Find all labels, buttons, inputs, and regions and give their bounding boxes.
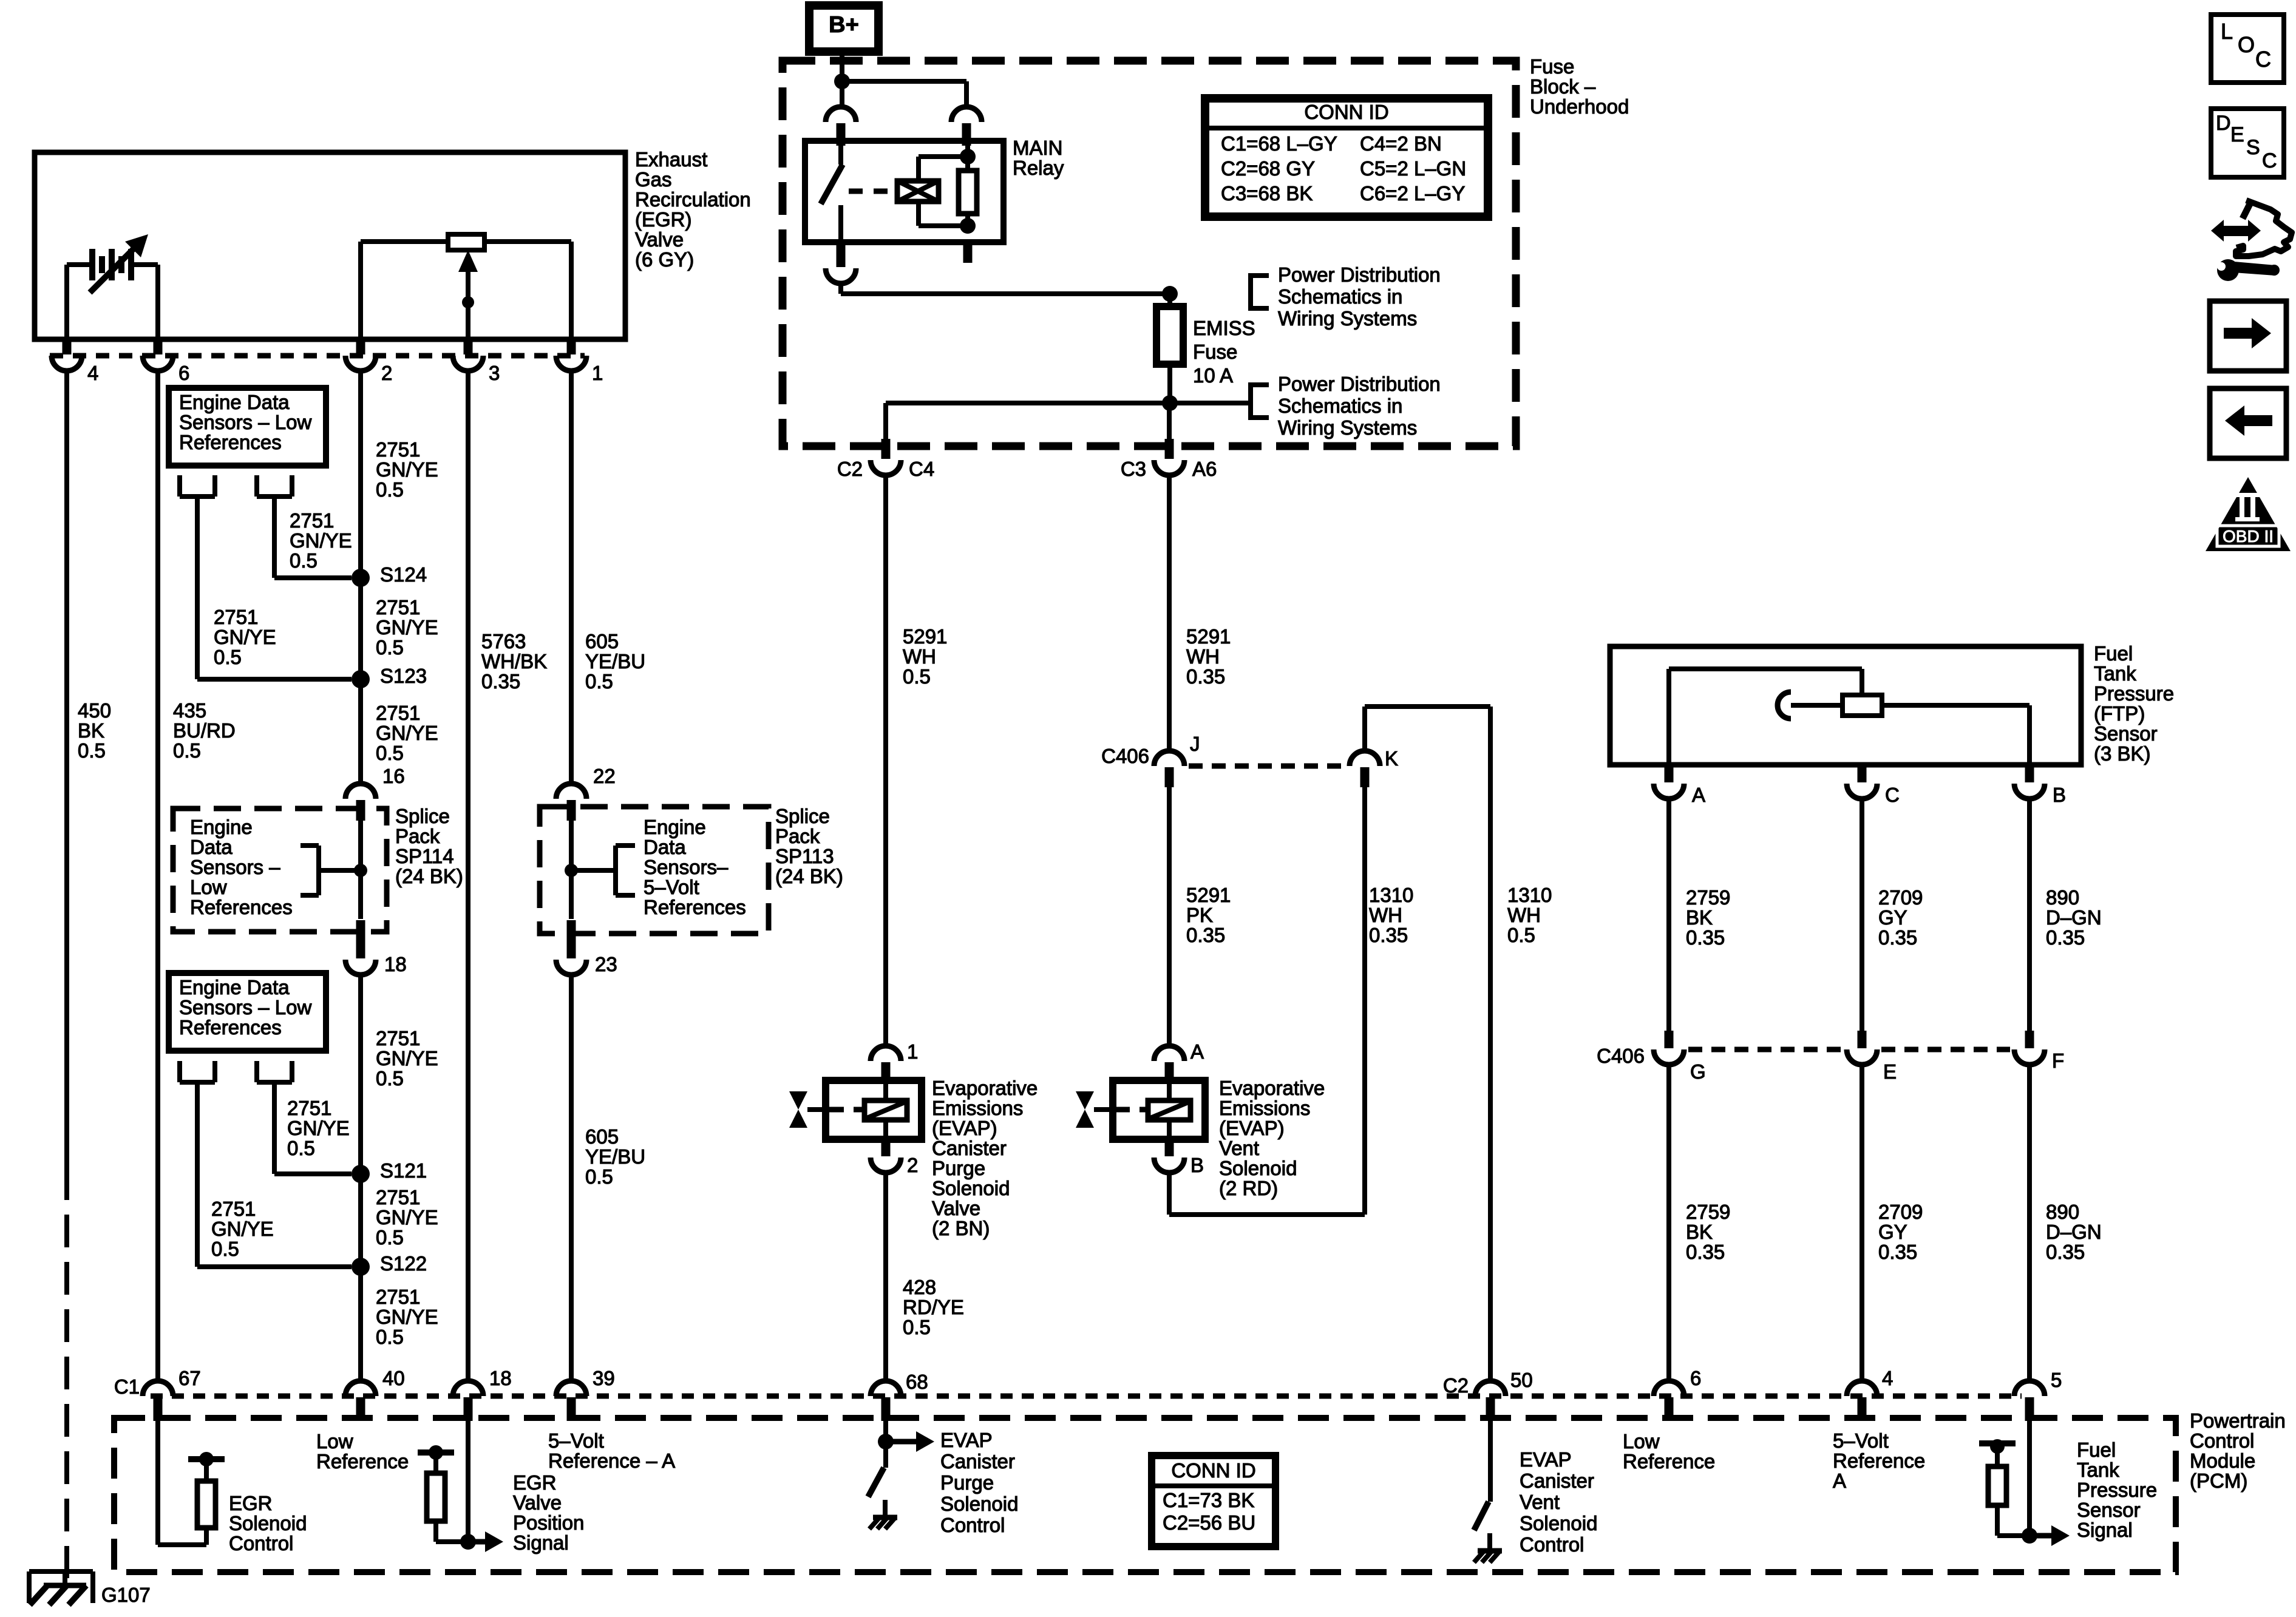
svg-text:(EVAP): (EVAP) — [1219, 1117, 1285, 1139]
MAIN relay label — [1013, 137, 1064, 179]
branch wire from upper box to S124 — [257, 475, 352, 578]
svg-text:0.5: 0.5 — [376, 478, 404, 501]
splice pack SP114 pin 18 — [345, 920, 407, 975]
svg-text:2759: 2759 — [1686, 1201, 1730, 1223]
svg-text:(EGR): (EGR) — [635, 208, 692, 231]
svg-text:Vent: Vent — [1520, 1491, 1560, 1513]
EVAP canister vent solenoid driver (switch to ground) — [1474, 1421, 1502, 1562]
svg-text:5–Volt: 5–Volt — [1833, 1429, 1889, 1452]
svg-text:Sensors –: Sensors – — [190, 856, 280, 878]
svg-text:C1: C1 — [114, 1375, 140, 1398]
svg-text:C406: C406 — [1597, 1045, 1645, 1067]
EGR valve position signal input (resistor and arrow) — [418, 1421, 503, 1552]
svg-text:1310: 1310 — [1369, 884, 1413, 906]
svg-text:Sensors – Low: Sensors – Low — [179, 411, 311, 433]
svg-text:YE/BU: YE/BU — [585, 650, 645, 673]
wire label 428 RD/YE 0.5 — [903, 1276, 964, 1338]
svg-text:YE/BU: YE/BU — [585, 1145, 645, 1168]
svg-text:0.5: 0.5 — [78, 739, 106, 762]
svg-text:Purge: Purge — [932, 1157, 985, 1179]
svg-text:Underhood: Underhood — [1530, 95, 1629, 118]
svg-text:C2: C2 — [837, 458, 863, 480]
svg-text:OBD II: OBD II — [2223, 527, 2274, 546]
adjust/repair hand icon — [2211, 200, 2292, 281]
svg-text:0.35: 0.35 — [1369, 924, 1408, 946]
SP114 splice bracket and node — [301, 846, 367, 895]
svg-text:GN/YE: GN/YE — [376, 1206, 438, 1229]
svg-text:0.5: 0.5 — [290, 549, 318, 572]
PCM pin 67 — [143, 1367, 201, 1421]
svg-text:C5=2 L–GN: C5=2 L–GN — [1360, 157, 1466, 180]
EVAP canister purge solenoid valve — [789, 1080, 922, 1139]
CONN ID table (fuse block) — [1205, 98, 1488, 217]
OBD II icon — [2206, 477, 2291, 551]
svg-text:0.35: 0.35 — [1186, 665, 1225, 688]
C406 connector F — [2014, 1031, 2064, 1072]
svg-text:Sensor: Sensor — [2077, 1499, 2141, 1521]
svg-text:(2 BN): (2 BN) — [932, 1217, 990, 1239]
svg-text:Wiring Systems: Wiring Systems — [1278, 416, 1417, 439]
svg-text:L: L — [2221, 19, 2233, 44]
Fuse Block label — [1530, 55, 1629, 118]
LOC icon — [2211, 15, 2284, 83]
svg-text:Valve: Valve — [932, 1197, 980, 1219]
wire label 2709 GY 0.35 (upper) — [1878, 886, 1923, 949]
EGR valve pin 6 — [143, 338, 189, 384]
svg-text:Power Distribution: Power Distribution — [1278, 263, 1441, 286]
svg-text:References: References — [179, 431, 282, 453]
C406 G-E dashed line — [1688, 1047, 1843, 1053]
splice pack SP113 dashed box — [540, 807, 769, 934]
svg-text:A: A — [1190, 1040, 1204, 1063]
svg-text:Engine: Engine — [644, 816, 706, 838]
wire label 890 D-GN 0.35 (upper) — [2046, 886, 2102, 949]
svg-text:5–Volt: 5–Volt — [548, 1429, 604, 1452]
svg-text:Evaporative: Evaporative — [932, 1077, 1038, 1099]
svg-text:C1=68 L–GY: C1=68 L–GY — [1221, 132, 1337, 155]
svg-text:2751: 2751 — [376, 1027, 420, 1049]
svg-text:D–GN: D–GN — [2046, 1221, 2102, 1243]
svg-text:Schematics in: Schematics in — [1278, 285, 1402, 308]
splice pack SP113 pin 22 — [556, 765, 616, 821]
splice S122 — [352, 1252, 427, 1276]
svg-text:2709: 2709 — [1878, 1201, 1923, 1223]
EGR valve pin 2 — [345, 338, 392, 384]
svg-text:450: 450 — [78, 699, 111, 722]
svg-text:E: E — [1883, 1060, 1897, 1083]
wire label 2759 BK 0.35 (lower) — [1686, 1201, 1730, 1263]
svg-text:0.5: 0.5 — [903, 665, 931, 688]
branch label 2751 GN/YE 0.5 (to S122) — [211, 1198, 274, 1260]
svg-text:WH/BK: WH/BK — [481, 650, 547, 673]
EGR connector row dashed line — [50, 353, 585, 359]
Low Reference label (pin 6) — [1623, 1430, 1715, 1473]
svg-text:Recirculation: Recirculation — [635, 188, 751, 211]
svg-text:0.35: 0.35 — [1878, 1241, 1917, 1263]
svg-text:GN/YE: GN/YE — [376, 1306, 438, 1328]
svg-text:Reference: Reference — [316, 1450, 409, 1473]
svg-text:GN/YE: GN/YE — [214, 626, 276, 648]
C406 E-F dashed line — [1881, 1047, 2010, 1053]
svg-text:5–Volt: 5–Volt — [644, 876, 699, 898]
svg-text:GY: GY — [1878, 1221, 1907, 1243]
svg-text:MAIN: MAIN — [1013, 137, 1063, 159]
PCM pin 5 — [2014, 1369, 2062, 1421]
wire label 605 YE/BU 0.5 (lower) — [585, 1125, 645, 1188]
svg-text:2: 2 — [907, 1154, 918, 1176]
svg-text:Low: Low — [190, 876, 227, 898]
wire label 5763 WH/BK 0.35 — [481, 630, 547, 693]
EGR Solenoid Control label — [229, 1492, 307, 1554]
EGR valve pin 3 — [453, 338, 500, 384]
EVAP Canister Purge Solenoid Control label — [940, 1429, 1018, 1536]
wire label 1310 WH 0.5 — [1507, 884, 1552, 946]
wire label 5291 PK 0.35 — [1186, 884, 1231, 946]
svg-text:0.5: 0.5 — [376, 1326, 404, 1348]
svg-text:Control: Control — [940, 1514, 1005, 1536]
PCM label — [2190, 1409, 2286, 1492]
svg-text:10 A: 10 A — [1193, 364, 1233, 387]
svg-text:Powertrain: Powertrain — [2190, 1409, 2286, 1432]
branch wire from lower box to S122 — [180, 1061, 352, 1267]
EGR Valve Position Signal label — [513, 1471, 584, 1554]
relay output pin (switch side) — [826, 242, 856, 283]
EVAP canister vent solenoid — [1076, 1080, 1205, 1139]
splice S123 — [352, 665, 427, 688]
svg-text:References: References — [644, 896, 746, 918]
svg-text:Gas: Gas — [635, 168, 672, 191]
wire 5291 WH 0.5 to purge solenoid — [883, 475, 888, 1046]
forward arrow icon — [2210, 301, 2286, 371]
C406 label (J-K row) — [1101, 745, 1149, 767]
svg-text:0.5: 0.5 — [214, 646, 242, 668]
wire 890 D-GN C406 F to PCM 5 — [2027, 1064, 2032, 1382]
svg-text:605: 605 — [585, 1125, 619, 1148]
Engine Data Sensors - Low References box (upper) — [169, 388, 326, 466]
svg-text:Purge: Purge — [940, 1471, 994, 1494]
wire label 435 BU/RD 0.5 — [173, 699, 236, 762]
svg-text:References: References — [179, 1016, 282, 1039]
SP114 inner label — [190, 816, 293, 918]
svg-text:0.5: 0.5 — [173, 739, 201, 762]
svg-text:(2 RD): (2 RD) — [1219, 1177, 1278, 1199]
svg-text:GN/YE: GN/YE — [287, 1117, 350, 1139]
back arrow icon — [2210, 388, 2286, 458]
svg-text:C: C — [2255, 47, 2271, 72]
EMISS fuse — [1156, 294, 1183, 402]
wire label 605 YE/BU 0.5 (upper) — [585, 630, 645, 693]
EVAP purge solenoid label — [932, 1077, 1038, 1239]
svg-text:SP113: SP113 — [775, 845, 834, 867]
svg-text:EVAP: EVAP — [940, 1429, 993, 1451]
svg-text:605: 605 — [585, 630, 619, 653]
svg-text:C3=68 BK: C3=68 BK — [1221, 182, 1313, 205]
svg-text:Engine Data: Engine Data — [179, 976, 290, 998]
svg-text:S121: S121 — [380, 1159, 427, 1182]
svg-text:6: 6 — [1690, 1367, 1701, 1389]
EGR valve pin 1 — [556, 338, 603, 384]
svg-text:GN/YE: GN/YE — [376, 1047, 438, 1070]
svg-text:(EVAP): (EVAP) — [932, 1117, 997, 1139]
FTP sensor pin A — [1654, 765, 1705, 806]
svg-text:Pressure: Pressure — [2094, 682, 2174, 705]
svg-text:A: A — [1692, 784, 1705, 806]
EVAP purge solenoid pin 2 — [871, 1139, 918, 1176]
FTP sensor pin B — [2014, 765, 2066, 806]
relay pin connector (right) — [951, 107, 982, 146]
svg-text:G: G — [1690, 1060, 1706, 1083]
svg-text:1: 1 — [592, 362, 603, 384]
svg-text:Control: Control — [229, 1532, 293, 1554]
svg-text:4: 4 — [87, 362, 98, 384]
svg-text:Module: Module — [2190, 1449, 2255, 1472]
svg-text:0.35: 0.35 — [1878, 926, 1917, 949]
svg-text:Canister: Canister — [940, 1450, 1015, 1473]
svg-text:Engine Data: Engine Data — [179, 391, 290, 413]
svg-text:Reference: Reference — [1623, 1450, 1715, 1473]
svg-text:D–GN: D–GN — [2046, 906, 2102, 929]
svg-text:Splice: Splice — [775, 805, 830, 827]
Low Reference label (pin 40) — [316, 1430, 409, 1473]
svg-text:428: 428 — [903, 1276, 936, 1298]
wire 2759 BK pin A to C406 G — [1666, 798, 1671, 1032]
svg-text:Sensor: Sensor — [2094, 722, 2158, 745]
svg-text:BK: BK — [78, 719, 104, 742]
svg-text:0.35: 0.35 — [481, 670, 520, 693]
svg-text:22: 22 — [593, 765, 616, 787]
svg-text:C1=73 BK: C1=73 BK — [1163, 1489, 1254, 1511]
svg-text:Tank: Tank — [2077, 1459, 2119, 1481]
svg-text:Emissions: Emissions — [932, 1097, 1023, 1119]
svg-text:5291: 5291 — [1186, 625, 1231, 648]
svg-text:Schematics in: Schematics in — [1278, 395, 1402, 417]
wire to fuse block connector C2-C4 — [883, 403, 888, 439]
wire label 2751 GN/YE 0.5 (S121-S122) — [376, 1186, 438, 1249]
svg-text:Solenoid: Solenoid — [940, 1493, 1018, 1515]
svg-text:Engine: Engine — [190, 816, 253, 838]
svg-text:S123: S123 — [380, 665, 427, 687]
wire label 890 D-GN 0.35 (lower) — [2046, 1201, 2102, 1263]
EVAP vent solenoid pin A — [1154, 1040, 1204, 1082]
wire 5291 WH 0.35 to C406 J — [1167, 475, 1172, 751]
svg-text:C3: C3 — [1121, 458, 1146, 480]
fuse block connector C3 A6 — [1121, 403, 1217, 480]
wire 605 YE/BU pin 1 to splice pin 22 — [569, 371, 574, 785]
wire B+ to main relay — [834, 52, 966, 107]
svg-text:5: 5 — [2051, 1369, 2062, 1391]
Powertrain Control Module dashed box — [114, 1418, 2176, 1572]
svg-text:0.35: 0.35 — [1686, 1241, 1725, 1263]
splice S121 — [352, 1159, 427, 1183]
svg-text:Relay: Relay — [1013, 157, 1064, 179]
svg-text:Splice: Splice — [395, 805, 450, 827]
svg-text:2751: 2751 — [376, 1186, 420, 1209]
PCM pin 4 — [1847, 1367, 1893, 1421]
C1 connector label — [114, 1375, 140, 1398]
svg-text:C2=68 GY: C2=68 GY — [1221, 157, 1315, 180]
PCM pin 18 — [453, 1367, 512, 1421]
svg-text:0.5: 0.5 — [903, 1316, 931, 1338]
svg-text:(24 BK): (24 BK) — [395, 865, 463, 887]
svg-text:Block –: Block – — [1530, 75, 1596, 98]
svg-text:2751: 2751 — [376, 438, 420, 461]
C406 connector G — [1654, 1031, 1706, 1083]
PCM connector row dotted line — [151, 1394, 2022, 1399]
svg-text:WH: WH — [903, 645, 936, 668]
svg-text:C: C — [1885, 784, 1900, 806]
svg-text:Fuel: Fuel — [2077, 1439, 2116, 1461]
svg-text:Wiring Systems: Wiring Systems — [1278, 307, 1417, 330]
wire label 2759 BK 0.35 (upper) — [1686, 886, 1730, 949]
wire label 2751 GN/YE 0.5 (below S123) — [376, 702, 438, 764]
wire pin B loop to K — [1169, 787, 1365, 1215]
branch wire from lower box to S121 — [257, 1061, 352, 1174]
svg-text:Reference: Reference — [1833, 1449, 1925, 1472]
Splice Pack SP114 label — [395, 805, 463, 887]
C406 connector E — [1847, 1031, 1897, 1083]
wire 428 RD/YE to PCM 68 — [883, 1172, 888, 1382]
svg-text:A: A — [1833, 1470, 1846, 1492]
svg-text:1310: 1310 — [1507, 884, 1552, 906]
svg-text:Control: Control — [2190, 1429, 2254, 1452]
MAIN relay — [805, 141, 1004, 242]
svg-text:0.35: 0.35 — [2046, 1241, 2085, 1263]
svg-text:GN/YE: GN/YE — [211, 1218, 274, 1240]
wire 2751 GN/YE pin 2 to splice pack pin 16 — [358, 371, 363, 785]
PCM pin 40 — [345, 1367, 405, 1421]
SP113 wire through splice box — [569, 821, 574, 919]
svg-text:23: 23 — [595, 953, 617, 975]
svg-text:2751: 2751 — [211, 1198, 256, 1220]
svg-text:Pack: Pack — [775, 825, 820, 847]
svg-text:EGR: EGR — [229, 1492, 273, 1514]
CONN ID table (PCM) — [1152, 1456, 1275, 1547]
svg-text:Pack: Pack — [395, 825, 440, 847]
Fuel Tank Pressure sensor box — [1610, 646, 2081, 765]
branch label 2751 GN/YE 0.5 (to S124) — [290, 509, 352, 572]
svg-text:435: 435 — [173, 699, 206, 722]
wire 2709 GY pin C to C406 E — [1860, 798, 1864, 1032]
EGR valve label — [635, 148, 751, 271]
svg-text:68: 68 — [906, 1371, 928, 1393]
svg-text:B: B — [2053, 784, 2066, 806]
5-Volt Reference A label (pin 4) — [1833, 1429, 1925, 1492]
svg-text:B+: B+ — [829, 12, 859, 38]
svg-text:0.5: 0.5 — [585, 1165, 613, 1188]
Power Distribution label (upper) — [1278, 263, 1441, 330]
svg-text:E: E — [2230, 123, 2244, 146]
svg-text:Data: Data — [644, 836, 686, 858]
svg-text:0.5: 0.5 — [1507, 924, 1535, 946]
svg-text:16: 16 — [382, 765, 405, 787]
wire K up and over to PCM 50 — [1365, 707, 1490, 1382]
FTP sensor pin C — [1847, 765, 1900, 806]
EVAP canister purge solenoid driver (switch to ground) — [868, 1421, 934, 1529]
svg-text:Low: Low — [316, 1430, 353, 1453]
DESC icon — [2211, 109, 2284, 177]
svg-text:C4=2 BN: C4=2 BN — [1360, 132, 1442, 155]
svg-text:5763: 5763 — [481, 630, 526, 653]
svg-text:References: References — [190, 896, 293, 918]
splice pack SP113 pin 23 — [556, 920, 617, 975]
svg-text:(PCM): (PCM) — [2190, 1470, 2247, 1492]
svg-text:Power Distribution: Power Distribution — [1278, 373, 1441, 395]
svg-text:Fuse: Fuse — [1193, 341, 1237, 363]
svg-text:A6: A6 — [1192, 458, 1217, 480]
Power Distribution label (lower) — [1278, 373, 1441, 439]
svg-text:Valve: Valve — [635, 228, 684, 251]
Power Distribution reference bracket (upper) — [1251, 273, 1269, 311]
SP114 wire through splice box — [358, 821, 363, 919]
svg-text:3: 3 — [489, 362, 500, 384]
EGR valve outline box — [35, 152, 625, 339]
Engine Data Sensors - Low References box (lower) — [169, 973, 326, 1051]
svg-text:BU/RD: BU/RD — [173, 719, 236, 742]
wire label 5291 WH 0.5 — [903, 625, 947, 688]
svg-text:Vent: Vent — [1219, 1137, 1259, 1159]
svg-text:GN/YE: GN/YE — [376, 458, 438, 481]
branch label 2751 GN/YE 0.5 (to S123) — [214, 606, 276, 668]
svg-text:CONN ID: CONN ID — [1171, 1459, 1255, 1482]
svg-text:Reference – A: Reference – A — [548, 1449, 675, 1472]
wire 890 D-GN pin B to C406 F — [2027, 798, 2032, 1032]
svg-text:J: J — [1190, 733, 1200, 755]
svg-text:0.5: 0.5 — [287, 1137, 315, 1159]
svg-text:Pressure: Pressure — [2077, 1479, 2157, 1501]
EVAP purge solenoid pin 1 — [871, 1040, 918, 1082]
svg-text:BK: BK — [1686, 1221, 1713, 1243]
Fuel Tank Pressure Sensor Signal label — [2077, 1439, 2157, 1541]
svg-text:Fuse: Fuse — [1530, 55, 1574, 78]
svg-text:WH: WH — [1369, 904, 1402, 926]
svg-text:0.5: 0.5 — [376, 742, 404, 764]
svg-text:Canister: Canister — [1520, 1470, 1594, 1492]
C406 J-K dashed line — [1189, 764, 1345, 769]
relay pin connector (left) — [826, 107, 856, 146]
svg-text:S122: S122 — [380, 1252, 427, 1275]
svg-text:G107: G107 — [101, 1584, 151, 1606]
svg-text:18: 18 — [384, 953, 407, 975]
wire label 2709 GY 0.35 (lower) — [1878, 1201, 1923, 1263]
wire 5291 PK to vent solenoid pin A — [1167, 787, 1172, 1046]
svg-text:C: C — [2262, 149, 2277, 172]
svg-text:EMISS: EMISS — [1193, 317, 1255, 339]
svg-text:2759: 2759 — [1686, 886, 1730, 909]
wire label 2751 GN/YE 0.5 (below S122) — [376, 1286, 438, 1348]
svg-text:Signal: Signal — [513, 1531, 569, 1554]
svg-text:0.35: 0.35 — [1186, 924, 1225, 946]
fuse output node — [886, 395, 1251, 411]
svg-text:C6=2 L–GY: C6=2 L–GY — [1360, 182, 1465, 205]
svg-text:50: 50 — [1510, 1369, 1533, 1391]
EVAP vent solenoid label — [1219, 1077, 1325, 1199]
svg-text:Solenoid: Solenoid — [1520, 1512, 1597, 1534]
C2 connector label (PCM) — [1443, 1374, 1469, 1397]
svg-text:40: 40 — [382, 1367, 405, 1389]
C406 connector J — [1154, 733, 1200, 787]
branch wire from upper box to S123 — [180, 475, 352, 679]
svg-text:0.35: 0.35 — [2046, 926, 2085, 949]
svg-text:2709: 2709 — [1878, 886, 1923, 909]
5-Volt Reference - A label — [548, 1429, 675, 1472]
wire label 2751 GN/YE 0.5 (below pin 18) — [376, 1027, 438, 1090]
wire label 1310 WH 0.35 — [1369, 884, 1413, 946]
svg-text:6: 6 — [178, 362, 189, 384]
svg-text:2: 2 — [381, 362, 392, 384]
svg-text:0.5: 0.5 — [376, 1226, 404, 1249]
svg-text:Emissions: Emissions — [1219, 1097, 1310, 1119]
svg-text:EVAP: EVAP — [1520, 1448, 1572, 1471]
